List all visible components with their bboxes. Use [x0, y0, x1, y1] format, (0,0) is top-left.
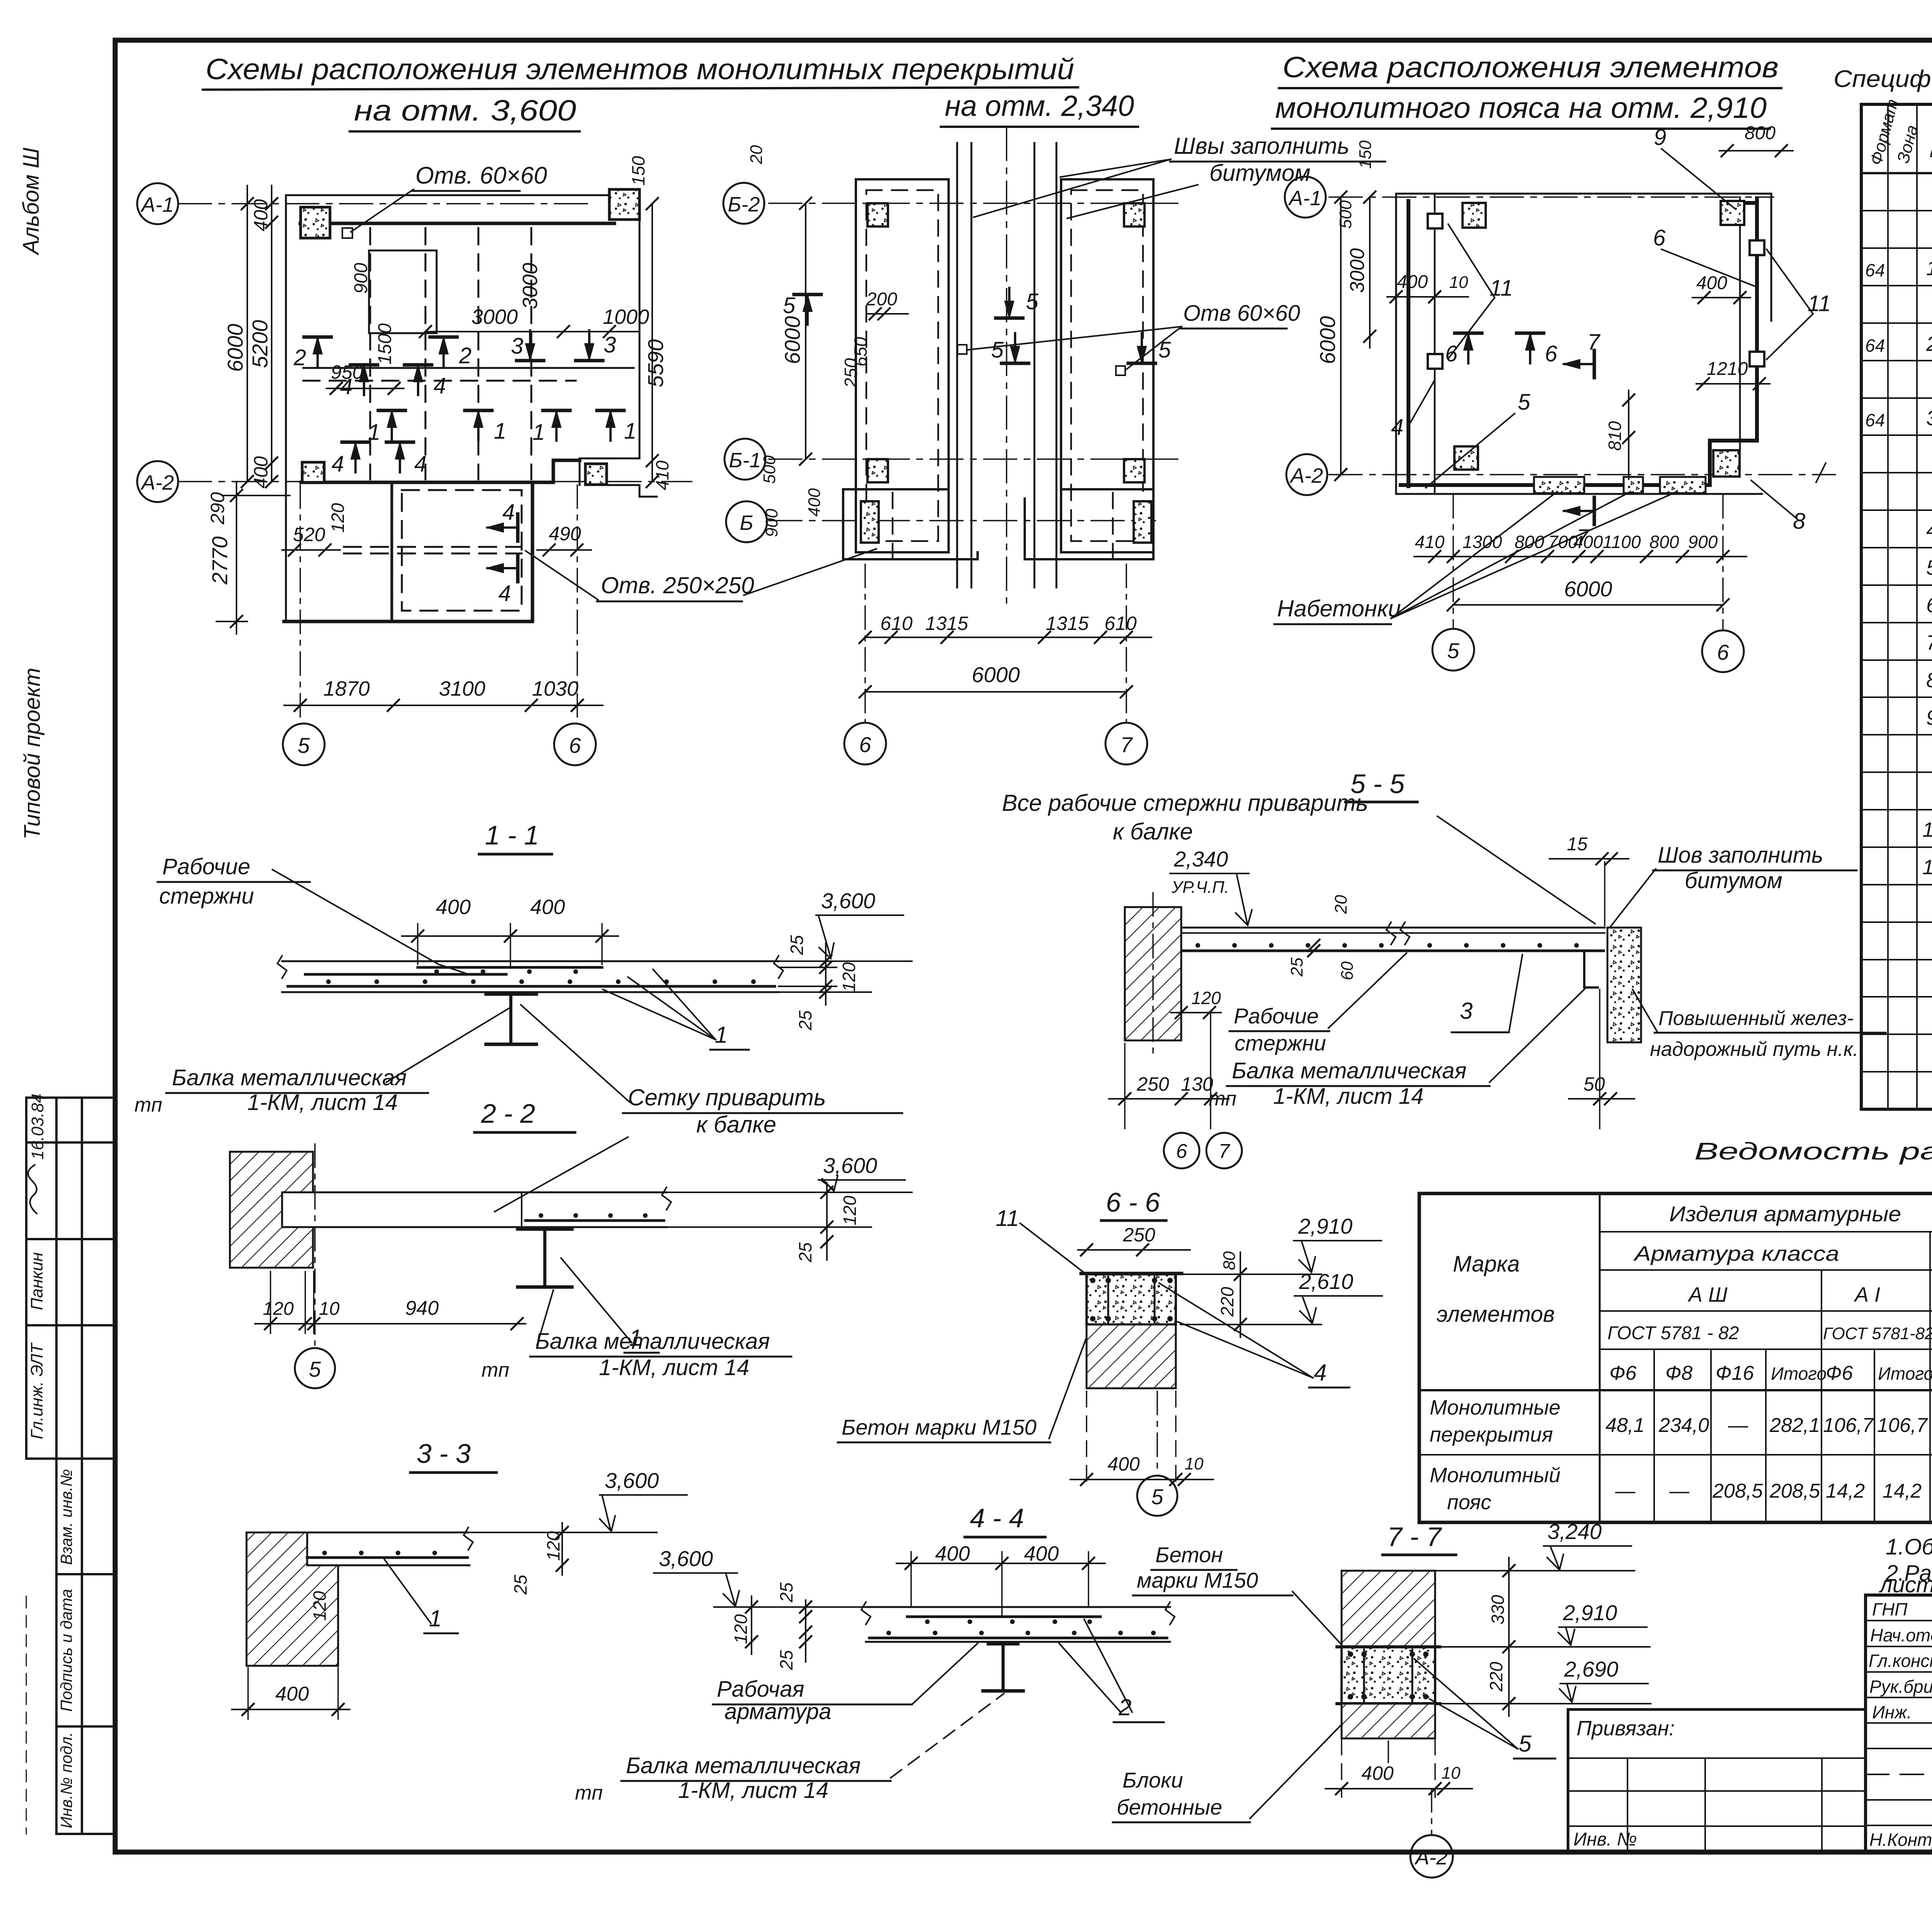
svg-text:2: 2 — [1926, 332, 1932, 356]
svg-text:тп: тп — [481, 1359, 509, 1381]
section 3-3 — [232, 1439, 687, 1719]
svg-text:Балка металлическая: Балка металлическая — [535, 1329, 770, 1354]
svg-text:Ф6: Ф6 — [1609, 1362, 1636, 1384]
svg-text:10: 10 — [1449, 273, 1468, 292]
svg-text:16.03.84: 16.03.84 — [28, 1093, 47, 1159]
svg-text:8: 8 — [1926, 669, 1932, 692]
svg-text:Все рабочие стержни приварить: Все рабочие стержни приварить — [1002, 790, 1368, 816]
grid bubble B — [726, 501, 767, 542]
svg-text:2,910: 2,910 — [1298, 1214, 1352, 1238]
svg-text:6: 6 — [1717, 640, 1729, 664]
svg-text:Рабочие: Рабочие — [1234, 1004, 1319, 1028]
bottom dims — [865, 637, 1151, 638]
dashed interior walls — [369, 228, 371, 479]
axis B-1 — [769, 458, 1182, 460]
svg-text:тп: тп — [575, 1782, 603, 1804]
svg-text:А-2: А-2 — [140, 471, 174, 494]
hatched wall 5-5 — [1125, 907, 1181, 1040]
svg-text:150: 150 — [1356, 140, 1375, 169]
dim 3000 1000 horizontal — [425, 331, 639, 332]
svg-text:монолитного пояса на отм. 2,91: монолитного пояса на отм. 2,910 — [1275, 92, 1767, 124]
svg-text:20: 20 — [1332, 895, 1350, 914]
svg-text:Блоки: Блоки — [1122, 1768, 1183, 1792]
svg-text:1: 1 — [494, 419, 506, 444]
slab outline — [284, 195, 657, 621]
svg-text:3,600: 3,600 — [821, 889, 875, 913]
svg-text:5: 5 — [298, 733, 310, 758]
svg-text:800: 800 — [1650, 532, 1679, 552]
svg-text:6: 6 — [1926, 594, 1932, 617]
svg-text:2: 2 — [293, 345, 306, 370]
hatched wall — [230, 1152, 313, 1268]
svg-text:А-1: А-1 — [1288, 187, 1321, 210]
svg-text:1: 1 — [715, 1022, 728, 1048]
grid bubble A-2 — [137, 461, 178, 502]
svg-text:7 - 7: 7 - 7 — [1387, 1522, 1442, 1552]
svg-text:120: 120 — [310, 1591, 330, 1621]
wall beam bottom — [301, 460, 580, 482]
left attach box — [1568, 1709, 1866, 1851]
svg-text:2 - 2: 2 - 2 — [481, 1098, 535, 1129]
svg-text:Отв 60×60: Отв 60×60 — [1183, 301, 1300, 326]
svg-text:106,7: 106,7 — [1877, 1414, 1928, 1437]
grid bubble 7 — [1105, 723, 1147, 764]
I-beam 4-4 — [983, 1644, 1023, 1691]
svg-text:400: 400 — [1024, 1542, 1059, 1565]
grid bubble B-1 — [724, 439, 765, 480]
svg-text:Итого: Итого — [1771, 1364, 1827, 1384]
left sidebar: album text — [19, 147, 45, 839]
svg-text:410: 410 — [1415, 532, 1445, 552]
section marks 6 — [1455, 333, 1482, 363]
svg-text:10: 10 — [1185, 1454, 1204, 1473]
svg-text:Рабочая: Рабочая — [717, 1677, 804, 1702]
grid bubble 5 p3 — [1432, 629, 1474, 671]
svg-text:120: 120 — [543, 1531, 563, 1561]
svg-text:25: 25 — [776, 1650, 796, 1670]
lower extension — [284, 482, 532, 621]
wall beam top — [300, 222, 614, 225]
svg-text:4: 4 — [332, 451, 344, 477]
axis A-1 p3 — [1329, 196, 1774, 198]
svg-text:400: 400 — [1107, 1453, 1140, 1475]
svg-text:Монолитные: Монолитные — [1430, 1396, 1561, 1419]
svg-text:120: 120 — [839, 962, 859, 992]
svg-text:Ф6: Ф6 — [1826, 1362, 1853, 1384]
svg-text:битумом: битумом — [1685, 868, 1782, 893]
svg-text:1870: 1870 — [323, 677, 370, 700]
axis A-2 — [179, 481, 692, 482]
svg-text:400: 400 — [1696, 273, 1727, 293]
svg-text:7: 7 — [1219, 1140, 1231, 1163]
svg-text:Ф16: Ф16 — [1716, 1362, 1754, 1384]
left sidebar signature table upper — [26, 1098, 115, 1459]
svg-text:500: 500 — [760, 455, 779, 484]
plan at 3.600 — [137, 156, 754, 765]
column bottom hatch — [1342, 1704, 1435, 1738]
svg-text:400: 400 — [250, 456, 272, 489]
svg-text:25: 25 — [510, 1575, 531, 1595]
svg-text:950: 950 — [331, 361, 363, 383]
svg-text:400: 400 — [250, 199, 272, 232]
notes — [1879, 1534, 1932, 1610]
column pad top-left — [301, 207, 330, 238]
axis A-1 — [179, 203, 591, 204]
svg-text:4: 4 — [1314, 1360, 1327, 1386]
svg-text:Спецификация элементов к схема: Спецификация элементов к схемам, располо… — [1833, 66, 1932, 92]
pads p3 — [1463, 203, 1486, 228]
svg-text:4: 4 — [434, 373, 446, 398]
svg-text:А Ш: А Ш — [1687, 1283, 1728, 1306]
svg-text:25: 25 — [795, 1010, 815, 1031]
svg-text:6: 6 — [1445, 341, 1458, 366]
svg-text:арматура: арматура — [724, 1699, 831, 1724]
svg-text:Нач.отд.: Нач.отд. — [1870, 1625, 1932, 1645]
dim 6000 left — [805, 203, 806, 459]
column top hatch — [1342, 1571, 1435, 1647]
svg-text:1-КМ, лист 14: 1-КМ, лист 14 — [599, 1355, 749, 1380]
belt left — [1406, 201, 1410, 486]
dim 810 — [1628, 390, 1629, 479]
svg-text:1210: 1210 — [1707, 359, 1748, 379]
rail concrete strip — [1607, 928, 1641, 1042]
left wall — [843, 128, 1153, 603]
grid bubble A-1 p3 — [1285, 177, 1326, 218]
svg-text:Б: Б — [740, 511, 753, 535]
I-beam — [486, 994, 536, 1044]
svg-text:Балка металлическая: Балка металлическая — [1232, 1058, 1466, 1083]
svg-text:элементов: элементов — [1437, 1302, 1555, 1327]
section marks 5 — [794, 295, 821, 325]
svg-text:3100: 3100 — [439, 677, 485, 700]
axis B-2 — [769, 203, 1182, 204]
small hole 60x60 — [342, 228, 352, 238]
svg-text:3: 3 — [511, 334, 523, 359]
section mark 4 bottom — [342, 442, 369, 472]
svg-text:5: 5 — [1519, 1731, 1532, 1757]
right wall — [1061, 179, 1153, 552]
svg-text:Гл.констр.: Гл.констр. — [1869, 1651, 1932, 1671]
svg-text:64: 64 — [1865, 260, 1885, 280]
left notch opening — [369, 250, 437, 333]
svg-text:Ведомость расхода стали на эле: Ведомость расхода стали на элемент, кг — [1694, 1138, 1932, 1165]
svg-text:2,690: 2,690 — [1564, 1657, 1618, 1681]
svg-text:Гл.инж. ЭЛТ: Гл.инж. ЭЛТ — [27, 1342, 46, 1439]
svg-text:4: 4 — [502, 500, 515, 525]
svg-text:10: 10 — [319, 1299, 340, 1319]
svg-text:3 - 3: 3 - 3 — [417, 1439, 471, 1469]
svg-text:1030: 1030 — [532, 677, 578, 700]
svg-text:120: 120 — [840, 1195, 860, 1225]
svg-text:Схема расположения элементов: Схема расположения элементов — [1282, 51, 1779, 84]
svg-text:6000: 6000 — [1564, 577, 1612, 601]
svg-text:282,1: 282,1 — [1769, 1414, 1820, 1437]
svg-text:610: 610 — [880, 613, 913, 634]
svg-text:Типовой проект: Типовой проект — [20, 668, 45, 840]
svg-text:400: 400 — [935, 1542, 970, 1565]
svg-text:3000: 3000 — [1346, 248, 1369, 293]
plan at 2.340 — [723, 128, 1385, 764]
svg-text:1: 1 — [429, 1605, 442, 1631]
svg-text:208,5: 208,5 — [1769, 1480, 1820, 1502]
svg-text:410: 410 — [652, 460, 672, 490]
svg-text:Рук.бриг.: Рук.бриг. — [1869, 1677, 1932, 1697]
svg-text:400: 400 — [436, 896, 471, 919]
column pad bottom-right — [585, 464, 607, 485]
svg-text:1-КМ, лист 14: 1-КМ, лист 14 — [247, 1090, 398, 1115]
steel table — [1419, 1138, 1932, 1522]
svg-text:ГОСТ 5781 - 82: ГОСТ 5781 - 82 — [1607, 1323, 1739, 1343]
svg-text:900: 900 — [1688, 532, 1718, 552]
svg-text:1500: 1500 — [375, 323, 395, 364]
column pad bottom-left — [302, 462, 324, 482]
svg-text:520: 520 — [293, 524, 325, 545]
svg-text:9: 9 — [1926, 706, 1932, 729]
grid bubble A-2 p3 — [1286, 454, 1327, 495]
belt section — [1087, 1274, 1176, 1325]
svg-text:на отм. 3,600: на отм. 3,600 — [354, 94, 576, 127]
svg-text:1315: 1315 — [925, 613, 968, 634]
svg-text:Марка: Марка — [1453, 1251, 1520, 1277]
svg-text:64: 64 — [1865, 335, 1885, 356]
svg-text:1-КМ, лист 14: 1-КМ, лист 14 — [678, 1778, 828, 1803]
svg-text:7: 7 — [1926, 631, 1932, 654]
svg-text:1: 1 — [624, 419, 636, 444]
svg-text:5: 5 — [1151, 1485, 1163, 1509]
svg-text:пояс: пояс — [1447, 1491, 1491, 1514]
plan at 2.910 — [1274, 123, 1835, 672]
svg-text:6: 6 — [1176, 1140, 1187, 1163]
pads on B — [861, 501, 879, 543]
svg-text:4: 4 — [1926, 519, 1932, 542]
svg-text:5: 5 — [1518, 390, 1531, 415]
bubble 5 (2-2) — [314, 1144, 316, 1345]
svg-text:25: 25 — [795, 1242, 815, 1263]
svg-text:5: 5 — [783, 293, 796, 318]
arrows 4 in extension — [486, 514, 518, 541]
svg-text:Отв. 60×60: Отв. 60×60 — [415, 162, 547, 189]
svg-text:Швы заполнить: Швы заполнить — [1174, 133, 1349, 159]
svg-text:250: 250 — [841, 358, 861, 388]
svg-text:Арматура класса: Арматура класса — [1633, 1242, 1839, 1265]
section 4-4 — [575, 1503, 1175, 1804]
svg-text:7: 7 — [1120, 732, 1133, 757]
svg-text:Монолитный: Монолитный — [1430, 1464, 1561, 1487]
belt right — [1710, 198, 1757, 483]
svg-text:9: 9 — [1654, 125, 1666, 150]
svg-text:150: 150 — [628, 156, 648, 186]
slab 5-5 — [1181, 922, 1605, 987]
svg-text:2,340: 2,340 — [1173, 847, 1228, 871]
svg-text:надорожный путь н.к.: надорожный путь н.к. — [1650, 1038, 1859, 1061]
svg-text:64: 64 — [1865, 410, 1885, 430]
staff rows — [1869, 1599, 1932, 1850]
svg-text:1315: 1315 — [1046, 613, 1088, 634]
svg-text:5: 5 — [1026, 289, 1039, 314]
svg-text:208,5: 208,5 — [1712, 1480, 1763, 1502]
svg-text:6000: 6000 — [972, 662, 1020, 687]
svg-text:Б-1: Б-1 — [729, 449, 761, 472]
svg-text:6000: 6000 — [223, 324, 247, 372]
pads on B-1 — [867, 459, 888, 482]
svg-text:810: 810 — [1605, 421, 1625, 451]
section 2-2 — [230, 1098, 912, 1388]
svg-text:Бетон: Бетон — [1155, 1542, 1223, 1567]
grid bubble 6 p3 — [1702, 630, 1744, 672]
belt section 7-7 — [1342, 1647, 1435, 1704]
svg-text:11: 11 — [1490, 276, 1513, 301]
svg-text:6: 6 — [859, 732, 871, 757]
svg-text:500: 500 — [1336, 200, 1355, 229]
section 7-7 — [1113, 1519, 1651, 1878]
svg-text:120: 120 — [731, 1614, 751, 1644]
svg-text:Балка металлическая: Балка металлическая — [626, 1753, 861, 1778]
mid slab joint — [303, 367, 634, 369]
grid bubble 5 — [283, 724, 325, 765]
dim 6000 bottom p3 — [1453, 604, 1723, 606]
svg-text:Отв. 250×250: Отв. 250×250 — [601, 572, 754, 598]
svg-text:120: 120 — [263, 1299, 294, 1319]
svg-text:15: 15 — [1567, 834, 1588, 855]
svg-text:290: 290 — [207, 492, 228, 525]
svg-text:3,600: 3,600 — [823, 1153, 877, 1178]
leader to foot from Отв 250х250 — [744, 549, 876, 595]
outline p3 — [1396, 194, 1771, 494]
svg-text:Бетон марки М150: Бетон марки М150 — [842, 1415, 1036, 1439]
svg-text:50: 50 — [1583, 1073, 1605, 1095]
grid bubble B-2 — [723, 183, 764, 224]
svg-text:20: 20 — [747, 145, 766, 164]
svg-text:Альбом Ш: Альбом Ш — [19, 147, 44, 255]
svg-text:5: 5 — [1926, 556, 1932, 579]
svg-text:к балке: к балке — [696, 1112, 776, 1137]
svg-text:330: 330 — [1488, 1595, 1508, 1624]
specification table — [1833, 66, 1932, 1109]
svg-text:тп: тп — [134, 1094, 162, 1116]
svg-text:Схемы расположения элементов м: Схемы расположения элементов монолитных … — [206, 53, 1074, 86]
pads on B-2 — [867, 203, 888, 226]
svg-text:1: 1 — [1926, 257, 1932, 280]
svg-text:3: 3 — [1926, 407, 1932, 430]
svg-text:900: 900 — [351, 263, 371, 294]
svg-text:400: 400 — [276, 1683, 309, 1705]
svg-text:стержни: стержни — [1235, 1031, 1326, 1055]
hole squares — [957, 345, 967, 354]
svg-text:2,610: 2,610 — [1299, 1269, 1353, 1294]
svg-text:5: 5 — [309, 1357, 321, 1381]
svg-text:Шов заполнить: Шов заполнить — [1658, 843, 1823, 868]
svg-text:5: 5 — [991, 337, 1004, 363]
svg-text:130: 130 — [1181, 1073, 1213, 1095]
svg-text:400: 400 — [805, 488, 824, 517]
svg-text:—: — — [1669, 1480, 1690, 1502]
svg-text:Сетку приварить: Сетку приварить — [628, 1084, 826, 1110]
svg-text:6000: 6000 — [780, 316, 804, 364]
bubble 5 (6-6) — [1156, 1391, 1158, 1473]
blocks below — [1087, 1325, 1176, 1388]
svg-text:перекрытия: перекрытия — [1430, 1423, 1553, 1446]
svg-text:3,600: 3,600 — [659, 1546, 713, 1571]
svg-text:УР.Ч.П.: УР.Ч.П. — [1171, 878, 1229, 897]
title block — [1568, 1595, 1932, 1893]
svg-text:Изделия арматурные: Изделия арматурные — [1669, 1202, 1901, 1226]
svg-text:3,600: 3,600 — [605, 1468, 659, 1493]
svg-text:к балке: к балке — [1113, 819, 1193, 844]
slab — [277, 956, 783, 992]
svg-text:Балка металлическая: Балка металлическая — [172, 1065, 406, 1090]
svg-text:2: 2 — [459, 343, 471, 368]
svg-text:4: 4 — [498, 581, 511, 606]
section mark 3 — [517, 330, 544, 361]
grid bubble 6 — [554, 724, 596, 765]
svg-text:Набетонки: Набетонки — [1277, 596, 1401, 621]
slab 2-2 — [282, 1187, 671, 1227]
svg-text:400: 400 — [1397, 272, 1428, 292]
section 1-1 — [134, 820, 912, 1212]
svg-text:4: 4 — [414, 451, 427, 477]
left sidebar label table lower — [26, 1459, 115, 1834]
svg-text:6 - 6: 6 - 6 — [1106, 1187, 1160, 1217]
svg-text:610: 610 — [1104, 613, 1137, 634]
svg-text:1300: 1300 — [1463, 532, 1502, 552]
nabetonki strips — [1534, 477, 1584, 493]
bottom dim chain p3 — [1414, 556, 1747, 557]
svg-text:8: 8 — [1793, 509, 1805, 534]
svg-text:10: 10 — [1922, 818, 1932, 841]
svg-text:250: 250 — [1122, 1224, 1155, 1246]
svg-text:234,0: 234,0 — [1658, 1414, 1709, 1437]
section 5-5 — [1002, 769, 1886, 1168]
svg-text:800: 800 — [1745, 123, 1776, 143]
svg-text:400: 400 — [530, 896, 565, 919]
svg-text:25: 25 — [787, 935, 807, 955]
label 7 lower + arrow — [1563, 497, 1594, 524]
svg-text:стержни: стержни — [159, 884, 254, 909]
slab 3-3 — [247, 1527, 473, 1565]
svg-text:400: 400 — [1361, 1762, 1394, 1784]
svg-text:марки М150: марки М150 — [1137, 1568, 1258, 1592]
dim 6000 left p3 — [1340, 197, 1342, 475]
svg-text:Привязан:: Привязан: — [1577, 1717, 1675, 1740]
svg-text:25: 25 — [776, 1582, 796, 1603]
svg-text:220: 220 — [1486, 1662, 1506, 1692]
svg-text:3000: 3000 — [519, 263, 542, 309]
svg-text:14,2: 14,2 — [1883, 1480, 1922, 1502]
svg-text:Подпись и дата: Подпись и дата — [57, 1589, 75, 1712]
svg-text:Инв.№ подл.: Инв.№ подл. — [57, 1732, 75, 1828]
svg-text:битумом: битумом — [1209, 160, 1310, 186]
svg-text:1: 1 — [532, 420, 545, 445]
svg-text:1100: 1100 — [1603, 532, 1641, 552]
axis B — [769, 520, 1155, 521]
svg-text:6: 6 — [569, 733, 581, 758]
svg-text:3: 3 — [1460, 998, 1473, 1024]
svg-text:—: — — [1615, 1480, 1636, 1502]
svg-text:Б-2: Б-2 — [728, 193, 760, 216]
svg-text:3000: 3000 — [471, 305, 518, 329]
svg-text:48,1: 48,1 — [1605, 1414, 1645, 1437]
section mark 2 — [304, 337, 331, 367]
svg-text:5: 5 — [1158, 337, 1171, 363]
svg-text:6000: 6000 — [1315, 316, 1340, 364]
section mark 4 mid — [350, 365, 378, 395]
svg-text:490: 490 — [549, 523, 581, 545]
svg-text:1000: 1000 — [603, 305, 649, 329]
dim line 6000 — [247, 186, 248, 482]
svg-text:на отм. 2,340: на отм. 2,340 — [945, 90, 1134, 123]
svg-text:ГОСТ 5781-82: ГОСТ 5781-82 — [1823, 1324, 1932, 1343]
dim 3000 left p3 — [1369, 197, 1371, 348]
